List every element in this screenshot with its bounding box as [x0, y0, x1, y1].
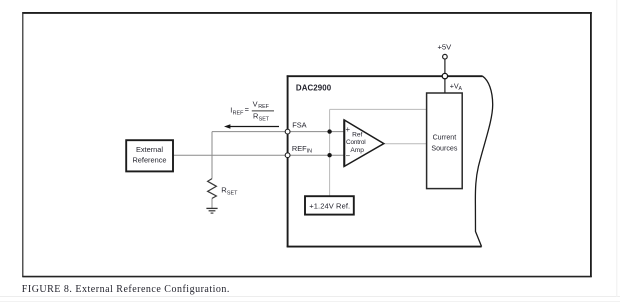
svg-text:A: A [459, 86, 463, 92]
svg-text:REF: REF [292, 144, 307, 153]
svg-text:SET: SET [259, 116, 270, 122]
svg-text:Current: Current [433, 134, 457, 142]
svg-text:Reference: Reference [132, 155, 166, 164]
svg-text:Sources: Sources [431, 144, 457, 152]
svg-text:IN: IN [307, 149, 312, 155]
svg-text:+5V: +5V [438, 42, 453, 51]
svg-text:=: = [245, 105, 249, 114]
svg-text:REF: REF [258, 104, 269, 110]
svg-text:Amp: Amp [350, 147, 364, 154]
svg-text:SET: SET [227, 190, 238, 196]
svg-text:+: + [346, 125, 351, 134]
svg-text:FSA: FSA [292, 121, 306, 130]
svg-text:V: V [253, 99, 258, 108]
svg-text:REF: REF [233, 110, 244, 116]
svg-text:+1.24V Ref.: +1.24V Ref. [309, 202, 350, 211]
svg-text:External: External [136, 145, 163, 154]
svg-text:DAC2900: DAC2900 [296, 84, 332, 93]
svg-text:R: R [253, 112, 258, 121]
svg-text:FIGURE 8. External Reference C: FIGURE 8. External Reference Configurati… [22, 284, 230, 295]
svg-text:Ref: Ref [352, 132, 362, 139]
svg-text:Control: Control [346, 139, 366, 146]
